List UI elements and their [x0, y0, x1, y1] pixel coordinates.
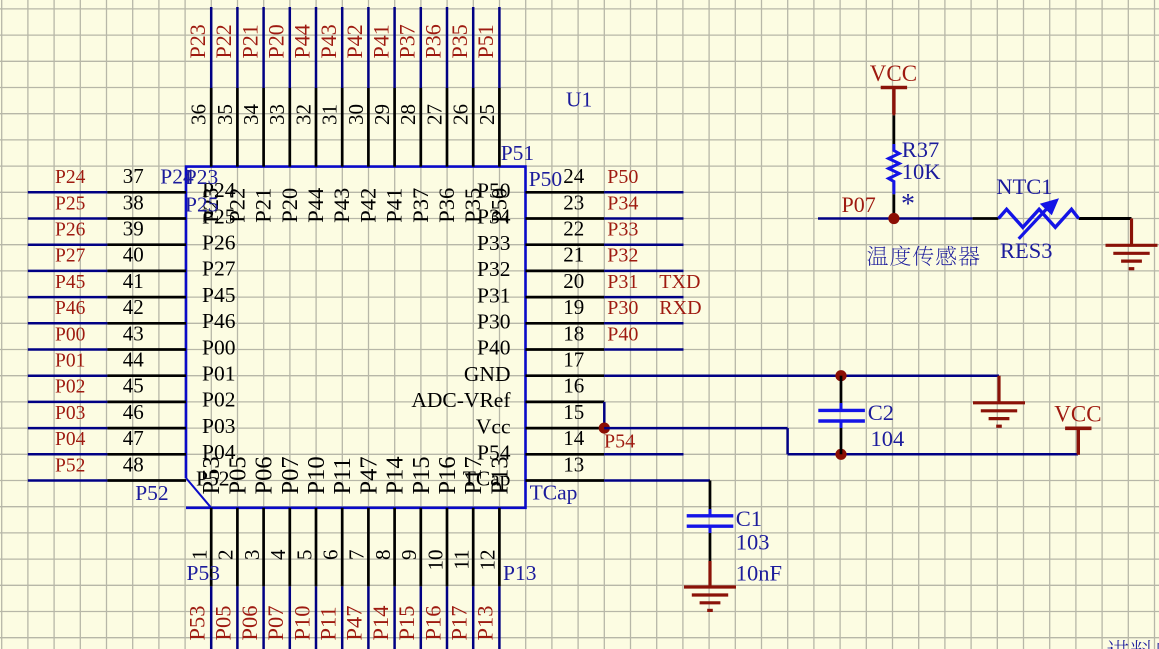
- svg-text:P50: P50: [529, 167, 562, 191]
- svg-text:P32: P32: [607, 245, 638, 267]
- svg-text:P24: P24: [55, 167, 86, 188]
- svg-text:7: 7: [345, 550, 369, 561]
- svg-text:P01: P01: [55, 351, 85, 372]
- wire right row 19: [604, 322, 683, 325]
- thermistor NTC1 arrow: [1019, 209, 1047, 239]
- resistor R37: [889, 144, 900, 194]
- svg-text:P51: P51: [473, 24, 498, 58]
- svg-text:P23: P23: [185, 165, 218, 189]
- IC corner diagonal: [186, 478, 211, 508]
- svg-text:P17: P17: [447, 605, 472, 640]
- svg-text:P02: P02: [202, 388, 235, 412]
- wire C1 to ground: [709, 533, 712, 561]
- svg-text:29: 29: [370, 104, 394, 125]
- svg-text:32: 32: [291, 104, 315, 125]
- pin 21 line: [526, 270, 605, 273]
- pin 29 line: [393, 88, 396, 167]
- svg-text:P41: P41: [368, 24, 393, 58]
- svg-text:10K: 10K: [902, 159, 942, 184]
- svg-text:19: 19: [563, 295, 584, 319]
- wire net P24 left: [28, 191, 108, 194]
- svg-text:P41: P41: [382, 188, 407, 223]
- capacitor C1 leads: [709, 481, 712, 515]
- svg-text:P00: P00: [55, 324, 85, 345]
- pin 7 line: [367, 508, 370, 587]
- pin 37 line: [107, 191, 186, 194]
- wire net P51 top: [498, 7, 501, 88]
- svg-text:U1: U1: [566, 88, 592, 112]
- svg-text:P40: P40: [607, 323, 638, 345]
- wire Vcc row 15: [604, 427, 788, 430]
- svg-text:P26: P26: [55, 220, 86, 241]
- power VCC top: [881, 88, 907, 115]
- svg-text:22: 22: [563, 217, 584, 241]
- svg-text:P27: P27: [55, 246, 86, 267]
- junction row17/C2: [835, 370, 846, 381]
- svg-text:TCap: TCap: [530, 481, 578, 505]
- wire net P00 left: [28, 348, 108, 351]
- svg-text:30: 30: [344, 104, 368, 125]
- svg-text:11: 11: [450, 550, 474, 570]
- svg-text:P13: P13: [473, 605, 498, 640]
- wire net P36 top: [446, 7, 449, 88]
- wire right row 20: [604, 296, 683, 299]
- svg-text:P40: P40: [477, 336, 510, 360]
- wire net P25 left: [28, 217, 108, 220]
- svg-text:P42: P42: [355, 188, 380, 223]
- ground GND2 lead: [1130, 219, 1133, 246]
- pin 32 line: [315, 88, 318, 167]
- pin 26 line: [472, 88, 475, 167]
- svg-text:P11: P11: [316, 606, 341, 640]
- junction C2 bottom: [835, 449, 846, 460]
- pin 4 line: [288, 508, 291, 587]
- pin 12 line: [498, 508, 501, 587]
- svg-text:P43: P43: [316, 24, 341, 58]
- wire right row 18: [604, 348, 683, 351]
- pin 47 line: [107, 453, 186, 456]
- power VCC right: [1065, 428, 1091, 455]
- svg-text:P33: P33: [477, 231, 510, 255]
- svg-text:10: 10: [423, 550, 447, 571]
- svg-text:23: 23: [563, 190, 584, 214]
- junction P07/R37: [888, 213, 899, 224]
- capacitor C2: [818, 403, 865, 428]
- junction row16/row15: [599, 423, 610, 434]
- pin NTC1 right: [1079, 217, 1132, 220]
- svg-text:42: 42: [123, 295, 144, 319]
- svg-text:P44: P44: [303, 188, 328, 223]
- wire net P01 left: [28, 374, 108, 377]
- wire net P26 left: [28, 243, 108, 246]
- wire net P13 bottom: [498, 586, 501, 649]
- pin 16 line: [526, 401, 605, 404]
- svg-text:P20: P20: [264, 24, 289, 58]
- svg-text:P47: P47: [355, 456, 382, 494]
- svg-text:P15: P15: [408, 456, 435, 494]
- svg-text:P46: P46: [202, 309, 236, 333]
- svg-text:P03: P03: [55, 403, 85, 424]
- svg-text:P51: P51: [501, 141, 534, 165]
- pin 5 line: [315, 508, 318, 587]
- wire net P46 left: [28, 322, 108, 325]
- svg-text:38: 38: [123, 190, 144, 214]
- svg-text:28: 28: [396, 104, 420, 125]
- svg-text:40: 40: [123, 243, 144, 267]
- wire net P22 top: [236, 7, 239, 88]
- wire GND net row 17: [604, 374, 999, 377]
- svg-text:P22: P22: [211, 24, 236, 58]
- pin 9 line: [419, 508, 422, 587]
- pin 43 line: [107, 348, 186, 351]
- pin 27 line: [446, 88, 449, 167]
- svg-text:P26: P26: [202, 231, 236, 255]
- wire net P16 bottom: [446, 586, 449, 649]
- svg-text:48: 48: [123, 452, 144, 476]
- svg-text:20: 20: [563, 269, 584, 293]
- svg-text:47: 47: [123, 426, 144, 450]
- pin 11 line: [472, 508, 475, 587]
- wire net P44 top: [315, 7, 318, 88]
- svg-text:P46: P46: [55, 298, 86, 319]
- pin 19 line: [526, 322, 605, 325]
- svg-text:C1: C1: [736, 506, 762, 531]
- svg-text:P36: P36: [421, 24, 446, 58]
- svg-text:P21: P21: [237, 24, 262, 58]
- svg-text:P53: P53: [187, 561, 220, 585]
- pin 44 line: [107, 374, 186, 377]
- svg-text:2: 2: [214, 550, 238, 561]
- svg-text:P45: P45: [55, 272, 85, 293]
- ground GND3 lead: [708, 561, 711, 587]
- pin 23 line: [526, 217, 605, 220]
- svg-text:P03: P03: [202, 414, 235, 438]
- wire net P37 top: [420, 7, 423, 88]
- pin 17 line: [526, 374, 605, 377]
- wire net P47 bottom: [367, 586, 370, 649]
- pin 35 line: [236, 88, 239, 167]
- wire R37 to P07 node: [893, 194, 896, 218]
- wire right row 24: [604, 191, 683, 194]
- pin 46 line: [107, 427, 186, 430]
- wire net P20 top: [289, 7, 292, 88]
- pin 3 line: [262, 508, 265, 587]
- wire P07 node: [818, 217, 973, 220]
- svg-text:P54: P54: [604, 431, 635, 453]
- label 进料口 clipped at bottom right: [1107, 640, 1159, 649]
- svg-text:P27: P27: [202, 257, 236, 281]
- svg-text:P16: P16: [434, 456, 461, 494]
- svg-text:P06: P06: [237, 605, 262, 640]
- pin 28 line: [419, 88, 422, 167]
- svg-text:P21: P21: [251, 188, 276, 223]
- pin 15 line: [526, 427, 605, 430]
- wire net P02 left: [28, 401, 108, 404]
- wire net P15 bottom: [420, 586, 423, 649]
- svg-text:P25: P25: [185, 193, 218, 217]
- label 温度传感器 (temperature sensor): [867, 246, 979, 266]
- ground GND1 lead: [997, 376, 1000, 403]
- pin 25 line: [498, 88, 501, 167]
- capacitor C2 leads: [840, 376, 843, 404]
- svg-text:P54: P54: [477, 441, 511, 465]
- svg-text:P43: P43: [329, 188, 354, 223]
- svg-text:P37: P37: [395, 24, 420, 58]
- wire Vcc vertical jog: [786, 428, 789, 454]
- svg-text:15: 15: [563, 400, 584, 424]
- svg-text:27: 27: [422, 104, 446, 125]
- svg-text:TCap: TCap: [463, 467, 511, 491]
- pin 24 line: [526, 191, 605, 194]
- pin 1 line: [210, 508, 213, 587]
- svg-text:P25: P25: [55, 193, 85, 214]
- pin 18 line: [526, 348, 605, 351]
- pin NTC1 left: [973, 217, 999, 220]
- svg-text:31: 31: [318, 104, 342, 125]
- svg-text:RXD: RXD: [659, 297, 701, 319]
- wire right row 22: [604, 243, 683, 246]
- svg-text:P52: P52: [135, 481, 168, 505]
- pin 40 line: [107, 270, 186, 273]
- svg-text:P06: P06: [251, 456, 278, 494]
- svg-text:VCC: VCC: [1054, 402, 1101, 427]
- svg-text:P11: P11: [329, 457, 356, 494]
- svg-text:P35: P35: [447, 24, 472, 58]
- wire net P05 bottom: [236, 586, 239, 649]
- svg-text:P50: P50: [607, 166, 638, 188]
- svg-text:P23: P23: [185, 24, 210, 58]
- svg-text:P42: P42: [342, 24, 367, 58]
- wire net P52 left: [28, 479, 108, 482]
- wire VCC to R37: [892, 90, 895, 115]
- wire net P14 bottom: [393, 586, 396, 649]
- svg-text:GND: GND: [464, 362, 511, 386]
- svg-text:P30: P30: [607, 297, 638, 319]
- svg-text:P01: P01: [202, 362, 235, 386]
- pin 45 line: [107, 401, 186, 404]
- svg-text:TXD: TXD: [659, 271, 700, 293]
- svg-text:*: *: [901, 189, 915, 220]
- pin 33 line: [288, 88, 291, 167]
- svg-text:P47: P47: [342, 605, 367, 640]
- svg-text:103: 103: [736, 530, 770, 555]
- pin 2 line: [236, 508, 239, 587]
- svg-text:39: 39: [123, 217, 144, 241]
- svg-text:25: 25: [475, 104, 499, 125]
- svg-text:P15: P15: [394, 605, 419, 640]
- svg-text:P04: P04: [55, 429, 86, 450]
- pin 31 line: [341, 88, 344, 167]
- wire right row 23: [604, 217, 683, 220]
- svg-text:P07: P07: [842, 192, 876, 217]
- svg-text:P33: P33: [607, 219, 638, 241]
- svg-text:P34: P34: [477, 205, 511, 229]
- svg-text:21: 21: [563, 243, 584, 267]
- pin 41 line: [107, 296, 186, 299]
- wire net P41 top: [393, 7, 396, 88]
- svg-text:P44: P44: [290, 24, 315, 58]
- wire net P45 left: [28, 296, 108, 299]
- pin 30 line: [367, 88, 370, 167]
- ground GND2: [1106, 245, 1158, 268]
- svg-text:VCC: VCC: [870, 61, 917, 86]
- svg-text:C2: C2: [868, 400, 894, 425]
- svg-text:16: 16: [563, 374, 584, 398]
- pin 48 line: [107, 479, 186, 482]
- svg-text:41: 41: [123, 269, 144, 293]
- svg-text:13: 13: [563, 452, 584, 476]
- svg-text:P30: P30: [477, 310, 510, 334]
- capacitor C1: [687, 509, 734, 533]
- svg-text:24: 24: [563, 164, 585, 188]
- wire net P10 bottom: [315, 586, 318, 649]
- svg-text:NTC1: NTC1: [996, 174, 1052, 199]
- svg-text:17: 17: [563, 348, 584, 372]
- wire Vcc to VCC symbol: [788, 453, 1078, 456]
- svg-text:34: 34: [239, 104, 263, 126]
- svg-text:43: 43: [123, 321, 144, 345]
- wire net P27 left: [28, 270, 108, 273]
- pin 8 line: [393, 508, 396, 587]
- svg-text:ADC-VRef: ADC-VRef: [411, 388, 511, 412]
- svg-text:P05: P05: [224, 456, 251, 494]
- svg-text:37: 37: [123, 164, 144, 188]
- pin 42 line: [107, 322, 186, 325]
- pin 10 line: [446, 508, 449, 587]
- pin 38 line: [107, 217, 186, 220]
- svg-text:P05: P05: [211, 605, 236, 640]
- svg-text:33: 33: [265, 104, 289, 125]
- svg-text:8: 8: [371, 550, 395, 561]
- op IC U1 body outline: [186, 167, 526, 508]
- pin 14 line: [526, 453, 605, 456]
- svg-text:26: 26: [449, 104, 473, 125]
- wire net P06 bottom: [262, 586, 265, 649]
- svg-text:P16: P16: [420, 605, 445, 640]
- svg-text:18: 18: [563, 321, 584, 345]
- wire net P11 bottom: [341, 586, 344, 649]
- svg-text:P53: P53: [185, 605, 210, 640]
- svg-text:4: 4: [266, 549, 290, 560]
- svg-text:P52: P52: [55, 455, 85, 476]
- svg-text:P20: P20: [277, 188, 302, 223]
- svg-text:35: 35: [213, 104, 237, 125]
- wire TCap row 13: [604, 479, 710, 482]
- svg-text:P10: P10: [289, 605, 314, 640]
- svg-text:P10: P10: [303, 456, 330, 494]
- wire net P03 left: [28, 427, 108, 430]
- svg-text:P31: P31: [607, 271, 638, 293]
- svg-text:P07: P07: [263, 605, 288, 640]
- wire right row 14: [604, 453, 683, 456]
- svg-text:P37: P37: [408, 188, 433, 223]
- thermistor NTC1 zigzag: [999, 209, 1079, 227]
- svg-text:P07: P07: [277, 456, 304, 494]
- wire net P43 top: [341, 7, 344, 88]
- pin 20 line: [526, 296, 605, 299]
- pin 34 line: [262, 88, 265, 167]
- svg-text:1: 1: [188, 550, 212, 561]
- svg-text:104: 104: [871, 426, 905, 451]
- ground GND3 under C1: [684, 587, 736, 610]
- pin 22 line: [526, 243, 605, 246]
- svg-text:P14: P14: [368, 605, 393, 640]
- wire net P07 bottom: [289, 586, 292, 649]
- svg-text:P53: P53: [198, 456, 225, 494]
- pin 36 line: [210, 88, 213, 167]
- svg-text:46: 46: [123, 400, 144, 424]
- pin 6 line: [341, 508, 344, 587]
- svg-text:P36: P36: [434, 188, 459, 223]
- wire net P23 top: [210, 7, 213, 88]
- pin 39 line: [107, 243, 186, 246]
- svg-text:P32: P32: [477, 257, 510, 281]
- svg-text:9: 9: [397, 550, 421, 561]
- svg-text:12: 12: [476, 550, 500, 571]
- svg-text:44: 44: [123, 348, 145, 372]
- svg-text:45: 45: [123, 374, 144, 398]
- wire net P53 bottom: [210, 586, 213, 649]
- svg-text:6: 6: [319, 550, 343, 561]
- wire net P17 bottom: [472, 586, 475, 649]
- svg-text:P22: P22: [224, 188, 249, 223]
- svg-text:P14: P14: [382, 456, 409, 494]
- wire net P04 left: [28, 453, 108, 456]
- svg-text:36: 36: [187, 104, 211, 125]
- svg-text:10nF: 10nF: [736, 561, 782, 586]
- svg-text:P50: P50: [477, 179, 510, 203]
- svg-text:P13: P13: [503, 561, 536, 585]
- svg-text:14: 14: [563, 426, 585, 450]
- svg-text:RES3: RES3: [1000, 238, 1053, 263]
- wire net P21 top: [262, 7, 265, 88]
- svg-text:P45: P45: [202, 283, 235, 307]
- pin 13 line: [526, 479, 605, 482]
- svg-text:Vcc: Vcc: [476, 414, 511, 438]
- wire net P42 top: [367, 7, 370, 88]
- wire ADC-VRef vertical: [603, 402, 606, 428]
- svg-text:P00: P00: [202, 335, 235, 359]
- svg-text:P31: P31: [477, 283, 510, 307]
- svg-text:3: 3: [240, 550, 264, 561]
- wire net P35 top: [472, 7, 475, 88]
- svg-text:P02: P02: [55, 377, 85, 398]
- svg-text:P34: P34: [607, 192, 638, 214]
- ground GND1: [973, 403, 1025, 426]
- svg-text:5: 5: [292, 550, 316, 561]
- wire right row 21: [604, 270, 683, 273]
